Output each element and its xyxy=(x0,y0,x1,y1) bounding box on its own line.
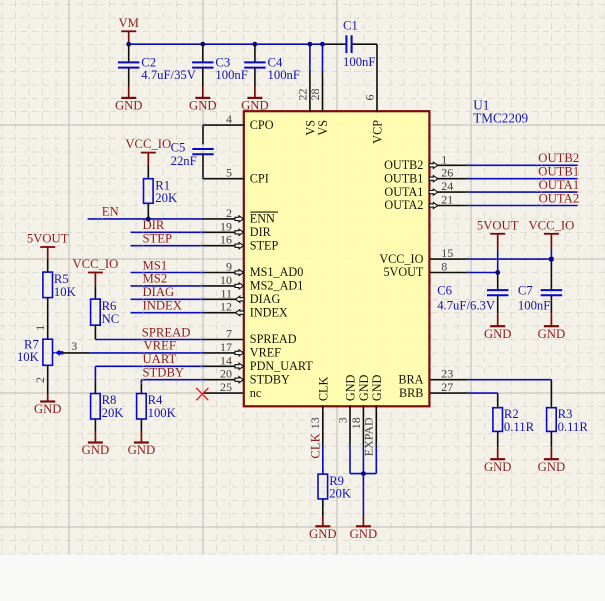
pin arrow output INDEX xyxy=(235,310,244,316)
svg-text:CLK: CLK xyxy=(309,432,323,458)
pin arrow output row 3 xyxy=(429,162,438,168)
svg-text:MS1_AD0: MS1_AD0 xyxy=(250,265,303,279)
svg-text:STDBY: STDBY xyxy=(143,366,185,380)
svg-text:6: 6 xyxy=(362,95,376,101)
wire R5 top lead xyxy=(47,260,49,273)
ground GND under R2 xyxy=(490,458,505,460)
ground GND under C7 xyxy=(544,325,559,327)
wire GND tie bar xyxy=(350,473,376,475)
svg-text:OUTA2: OUTA2 xyxy=(539,191,580,205)
resistor R9 xyxy=(318,474,328,499)
svg-text:OUTA1: OUTA1 xyxy=(384,185,423,199)
svg-text:20K: 20K xyxy=(329,487,352,501)
pin lead DIR xyxy=(203,231,242,233)
pin 18 GND lead xyxy=(362,405,364,446)
svg-text:23: 23 xyxy=(441,367,453,381)
potentiometer R7 xyxy=(43,339,53,365)
svg-text:15: 15 xyxy=(441,246,453,260)
svg-text:C5: C5 xyxy=(171,140,186,154)
svg-text:OUTB2: OUTB2 xyxy=(384,158,423,172)
svg-text:VM: VM xyxy=(118,16,138,30)
svg-text:CLK: CLK xyxy=(316,377,330,402)
resistor R5 xyxy=(43,272,53,298)
wire R9 bottom lead xyxy=(322,499,324,516)
pin 3 GND lead xyxy=(349,405,351,446)
svg-text:100nF: 100nF xyxy=(518,299,550,313)
svg-text:GND: GND xyxy=(82,443,110,457)
svg-text:C1: C1 xyxy=(343,18,358,32)
ground GND under C6 xyxy=(490,325,505,327)
svg-text:VS: VS xyxy=(316,120,330,136)
wire R1 top lead xyxy=(147,166,149,179)
pin lead OUTA1 xyxy=(430,191,469,193)
node 5VOUT/C6 junction xyxy=(495,270,500,275)
ground GND under R4 xyxy=(134,441,149,443)
svg-text:GND: GND xyxy=(370,374,384,401)
svg-text:13: 13 xyxy=(308,417,322,429)
pin 8 5VOUT lead xyxy=(430,272,469,274)
wire DIAG net xyxy=(131,298,204,300)
wire C5 to CPI xyxy=(202,154,204,179)
svg-text:VCC_IO: VCC_IO xyxy=(528,218,574,232)
pin lead MS2 xyxy=(203,285,242,287)
svg-text:DIAG: DIAG xyxy=(250,292,281,306)
svg-text:5VOUT: 5VOUT xyxy=(27,232,69,246)
wire VCC_IO riser red xyxy=(550,234,552,249)
pin 15 VCC_IO lead xyxy=(430,258,469,260)
pin lead STEP xyxy=(203,245,242,247)
wire pin 4 CPO xyxy=(203,124,245,126)
wire MS2 net xyxy=(131,285,204,287)
wire VM riser xyxy=(128,31,130,44)
overline on ENN xyxy=(250,211,278,213)
wire EN net xyxy=(88,218,204,220)
wire below 3 GND lead xyxy=(349,447,351,474)
svg-text:10: 10 xyxy=(220,273,232,287)
svg-text:0.11R: 0.11R xyxy=(504,420,535,434)
svg-text:28: 28 xyxy=(308,89,322,101)
pin 25 nc lead xyxy=(203,392,242,394)
wire VCC_IO riser xyxy=(550,249,552,259)
ground GND under R8 xyxy=(88,441,103,443)
svg-text:20: 20 xyxy=(220,367,232,381)
pin arrow output DIAG xyxy=(235,296,244,302)
wire to pin 22 xyxy=(309,44,311,70)
wire C3 top lead xyxy=(202,44,204,62)
wire R7 bottom lead xyxy=(47,365,49,393)
pin arrow output row 6 xyxy=(429,202,438,208)
wire C2 to GND xyxy=(128,86,130,98)
wire R8 bottom lead xyxy=(94,419,96,432)
wire CPO down to C5 xyxy=(202,125,204,144)
svg-text:12: 12 xyxy=(220,300,232,314)
svg-text:CPO: CPO xyxy=(250,118,274,132)
svg-text:SPREAD: SPREAD xyxy=(250,332,297,346)
wire OUTB1 net xyxy=(470,178,578,180)
svg-text:VCC_IO: VCC_IO xyxy=(125,137,171,151)
svg-text:3: 3 xyxy=(335,417,349,423)
svg-text:GND: GND xyxy=(344,374,358,401)
no-ERC marker red X on pin 25 xyxy=(196,388,208,400)
ground GND under C3 xyxy=(195,97,210,99)
svg-text:OUTA2: OUTA2 xyxy=(384,198,423,212)
svg-text:VREF: VREF xyxy=(250,346,281,360)
pin lead MS1 xyxy=(203,272,242,274)
svg-text:EN: EN xyxy=(102,205,119,219)
svg-text:18: 18 xyxy=(349,417,363,429)
wire R8 top lead xyxy=(94,380,96,394)
wire VREF net from R7 wiper xyxy=(63,352,89,354)
wire riser to UART xyxy=(94,366,96,380)
power port 5VOUT right xyxy=(490,233,505,235)
svg-text:20K: 20K xyxy=(155,191,178,205)
svg-text:CPI: CPI xyxy=(250,171,269,185)
svg-text:STEP: STEP xyxy=(250,238,279,252)
svg-text:20K: 20K xyxy=(102,406,125,420)
node C3 junction xyxy=(200,42,205,47)
pin 17 VREF lead xyxy=(203,352,242,354)
pin 28 VS lead xyxy=(322,71,324,113)
capacitor C6 xyxy=(487,289,508,291)
svg-text:MS2: MS2 xyxy=(143,272,168,286)
svg-text:16: 16 xyxy=(220,233,232,247)
wire pin 5 CPI xyxy=(203,178,245,180)
svg-text:VREF: VREF xyxy=(144,339,176,353)
svg-text:OUTB2: OUTB2 xyxy=(538,151,579,165)
pin 14 PDN_UART lead xyxy=(203,365,242,367)
svg-text:BRB: BRB xyxy=(399,386,423,400)
svg-text:1: 1 xyxy=(33,325,47,331)
capacitor C1 xyxy=(345,35,347,53)
svg-text:2: 2 xyxy=(33,377,47,383)
pin 20 STDBY lead xyxy=(203,379,242,381)
svg-text:3: 3 xyxy=(71,339,77,353)
svg-text:100K: 100K xyxy=(148,406,177,420)
wire R7 to GND xyxy=(47,394,49,402)
wire CLK to R9 xyxy=(322,447,324,475)
pin EXPAD GND lead xyxy=(375,405,377,446)
pin 6 VCP lead xyxy=(376,44,378,112)
wire VM bus xyxy=(129,43,323,45)
wire R2 to GND xyxy=(497,447,499,459)
wire C3 to GND xyxy=(202,86,204,98)
svg-text:NC: NC xyxy=(102,312,120,326)
svg-text:OUTB1: OUTB1 xyxy=(384,171,423,185)
R7 wiper arrow xyxy=(53,352,56,354)
svg-text:DIR: DIR xyxy=(143,218,165,232)
svg-text:GND: GND xyxy=(241,99,269,113)
wire R6 bottom lead xyxy=(94,325,96,339)
svg-text:VCC_IO: VCC_IO xyxy=(379,252,423,266)
wire C6 bottom lead xyxy=(497,295,499,313)
svg-text:27: 27 xyxy=(441,380,453,394)
svg-text:VCC_IO: VCC_IO xyxy=(72,257,118,271)
wire R4 bottom lead xyxy=(140,419,142,432)
svg-text:EXPAD: EXPAD xyxy=(362,417,376,456)
svg-text:C3: C3 xyxy=(215,55,230,69)
wire BRA down to R3 xyxy=(550,380,552,408)
svg-text:26: 26 xyxy=(441,166,453,180)
svg-text:OUTA1: OUTA1 xyxy=(539,178,580,192)
wire C2 bottom lead xyxy=(128,68,130,86)
wire STEP net xyxy=(131,245,204,247)
wire C1 right xyxy=(352,43,377,45)
node EN/R1 junction xyxy=(146,217,151,222)
wire C7 bottom lead xyxy=(550,295,552,313)
svg-text:SPREAD: SPREAD xyxy=(142,325,191,339)
svg-text:STEP: STEP xyxy=(143,232,173,246)
ground GND under C4 xyxy=(247,97,262,99)
svg-text:GND: GND xyxy=(484,460,512,474)
pin 23 BRA lead xyxy=(430,379,469,381)
pin arrow input row 12 xyxy=(235,283,244,289)
wire 5VOUT to R5 xyxy=(47,247,49,260)
wire OUTA2 net xyxy=(470,205,578,207)
wire VCC_IO net xyxy=(470,258,552,260)
svg-text:C7: C7 xyxy=(518,284,533,298)
svg-text:MS2_AD1: MS2_AD1 xyxy=(250,279,303,293)
wire C7 top lead xyxy=(550,259,552,290)
pin arrow input VREF xyxy=(235,350,244,356)
pin 13 CLK lead xyxy=(322,405,324,446)
svg-text:STDBY: STDBY xyxy=(250,372,290,386)
svg-text:10K: 10K xyxy=(17,350,40,364)
svg-text:100nF: 100nF xyxy=(215,68,247,82)
svg-text:C2: C2 xyxy=(141,55,156,69)
capacitor C5 xyxy=(192,148,213,150)
svg-text:4.7uF/35V: 4.7uF/35V xyxy=(141,68,196,82)
pin arrow input row 7 xyxy=(235,216,244,222)
wire BRB net xyxy=(470,392,498,394)
svg-text:24: 24 xyxy=(441,179,453,193)
svg-text:PDN_UART: PDN_UART xyxy=(250,359,313,373)
wire DIR net xyxy=(131,231,204,233)
svg-text:MS1: MS1 xyxy=(143,258,168,272)
svg-text:GND: GND xyxy=(350,527,378,541)
svg-text:11: 11 xyxy=(220,286,232,300)
power port VCC_IO above R1 xyxy=(141,152,156,154)
wire R9 to GND xyxy=(322,516,324,527)
power port VCC_IO above R6 xyxy=(88,272,103,274)
resistor R2 xyxy=(493,408,503,432)
svg-text:DIR: DIR xyxy=(250,225,272,239)
svg-text:10K: 10K xyxy=(54,285,77,299)
resistor R1 xyxy=(144,179,154,204)
capacitor C3 xyxy=(192,61,213,63)
wire VCC_IO to R1 xyxy=(147,153,149,166)
svg-text:GND: GND xyxy=(309,527,337,541)
IC U1 TMC2209 body xyxy=(244,111,430,406)
svg-text:ENN: ENN xyxy=(250,212,275,226)
node VCC_IO/C7 junction xyxy=(549,257,553,261)
pin 2 ENN lead xyxy=(203,218,242,220)
pin arrow input STDBY xyxy=(235,377,244,383)
pin lead DIAG xyxy=(203,298,242,300)
pin 22 VS lead xyxy=(309,71,311,113)
wire INDEX net xyxy=(131,312,204,314)
wire UART net xyxy=(95,365,203,367)
wire to GND port xyxy=(362,516,364,527)
svg-text:GND: GND xyxy=(484,327,512,341)
svg-text:OUTB1: OUTB1 xyxy=(538,165,579,179)
wire MS1 net xyxy=(131,272,204,274)
wire C3 bottom lead xyxy=(202,68,204,86)
svg-text:100nF: 100nF xyxy=(343,55,375,69)
wire OUTA1 net xyxy=(470,191,578,193)
svg-text:GND: GND xyxy=(538,327,566,341)
pin lead INDEX xyxy=(203,312,242,314)
pin 7 SPREAD lead xyxy=(203,339,242,341)
svg-text:4: 4 xyxy=(226,112,232,126)
wire R4 to GND xyxy=(140,432,142,443)
pin arrow input row 11 xyxy=(235,269,244,275)
svg-text:BRA: BRA xyxy=(398,372,423,386)
svg-text:14: 14 xyxy=(220,353,232,367)
wire R6 top lead xyxy=(94,285,96,299)
svg-text:GND: GND xyxy=(189,99,217,113)
pin arrow input row 9 xyxy=(235,243,244,249)
wire R3 bottom lead xyxy=(550,431,552,447)
svg-text:0.11R: 0.11R xyxy=(558,420,589,434)
resistor R4 xyxy=(137,394,147,420)
node GND junction xyxy=(361,471,366,476)
wire VREF net xyxy=(89,352,203,354)
wire BRB down to R2 xyxy=(497,393,499,408)
wire STDBY net xyxy=(141,379,203,381)
svg-text:C6: C6 xyxy=(437,284,452,298)
wire GND drop xyxy=(362,474,364,516)
pin 27 BRB lead xyxy=(430,392,469,394)
wire SPREAD net xyxy=(95,339,203,341)
pin lead OUTB2 xyxy=(430,164,469,166)
ground GND under R9 xyxy=(315,525,330,527)
svg-text:25: 25 xyxy=(220,380,232,394)
wire 5VOUT net xyxy=(470,272,498,274)
wire C4 to GND xyxy=(254,86,256,98)
wire R8 to GND xyxy=(94,432,96,443)
svg-text:GND: GND xyxy=(115,99,143,113)
svg-text:7: 7 xyxy=(226,327,232,341)
power port 5VOUT left xyxy=(40,246,55,248)
power port VCC_IO right xyxy=(544,233,559,235)
capacitor C2 xyxy=(118,61,139,63)
svg-text:2: 2 xyxy=(226,206,232,220)
wire OUTB2 net xyxy=(470,164,578,166)
pin lead OUTB1 xyxy=(430,178,469,180)
svg-text:nc: nc xyxy=(250,386,262,400)
ground GND under R7 xyxy=(40,400,55,402)
power port VM xyxy=(121,30,136,32)
svg-text:1: 1 xyxy=(441,152,447,166)
wire R5 to R7 xyxy=(47,298,49,340)
pin arrow input row 8 xyxy=(235,229,244,235)
svg-text:5: 5 xyxy=(226,166,232,180)
wire C7 to GND xyxy=(550,313,552,326)
wire to C1 left xyxy=(323,43,347,45)
wire C2 top lead xyxy=(128,44,130,62)
wire to pin 28 xyxy=(322,44,324,70)
wire R4 top lead xyxy=(140,380,142,394)
capacitor C7 xyxy=(541,289,562,291)
svg-text:INDEX: INDEX xyxy=(143,299,182,313)
svg-text:100nF: 100nF xyxy=(268,68,300,82)
svg-text:GND: GND xyxy=(34,402,62,416)
node C4 junction xyxy=(253,42,258,47)
svg-text:5VOUT: 5VOUT xyxy=(383,265,423,279)
svg-text:INDEX: INDEX xyxy=(250,305,288,319)
ground GND under R3 xyxy=(544,458,559,460)
node pin28 junction xyxy=(320,42,325,47)
ground GND under C2 xyxy=(121,97,136,99)
ground GND bottom center xyxy=(356,525,371,527)
wire below EXPAD GND lead xyxy=(375,447,377,474)
svg-text:17: 17 xyxy=(220,340,232,354)
svg-text:22nF: 22nF xyxy=(171,154,197,168)
svg-text:9: 9 xyxy=(226,260,232,274)
svg-text:5VOUT: 5VOUT xyxy=(477,218,519,232)
resistor R8 xyxy=(91,394,101,420)
wire R2 bottom lead xyxy=(497,431,499,447)
wire C6 to GND xyxy=(497,313,499,326)
node VM/C2 junction xyxy=(126,42,131,47)
wire below 18 GND lead xyxy=(362,447,364,474)
svg-text:8: 8 xyxy=(441,260,447,274)
pin arrow output row 4 xyxy=(429,176,438,182)
svg-text:VCP: VCP xyxy=(371,120,385,144)
svg-text:GND: GND xyxy=(357,374,371,401)
pin arrow output row 5 xyxy=(429,189,438,195)
node pin22 junction xyxy=(308,42,313,47)
wire R3 to GND xyxy=(550,447,552,459)
resistor R3 xyxy=(547,408,557,432)
wire 5VOUT riser red xyxy=(497,234,499,249)
wire BRA net xyxy=(470,379,552,381)
svg-text:GND: GND xyxy=(538,460,566,474)
svg-text:19: 19 xyxy=(220,219,232,233)
svg-text:UART: UART xyxy=(143,352,177,366)
svg-text:GND: GND xyxy=(128,443,156,457)
svg-text:C4: C4 xyxy=(268,55,283,69)
wire R1 bottom lead xyxy=(147,203,149,219)
wire C6 top lead xyxy=(497,273,499,291)
pin lead OUTA2 xyxy=(430,205,469,207)
svg-text:4.7uF/6.3V: 4.7uF/6.3V xyxy=(437,299,496,313)
wire C4 bottom lead xyxy=(254,68,256,86)
svg-text:DIAG: DIAG xyxy=(143,285,175,299)
capacitor C4 xyxy=(244,61,265,63)
wire VCC_IO to R6 xyxy=(94,273,96,286)
wire C4 top lead xyxy=(254,44,256,62)
resistor R6 xyxy=(91,299,101,325)
svg-text:TMC2209: TMC2209 xyxy=(473,110,528,125)
wire 5VOUT riser xyxy=(497,249,499,273)
pin arrow input PDN_UART xyxy=(235,363,244,369)
svg-text:21: 21 xyxy=(441,193,453,207)
